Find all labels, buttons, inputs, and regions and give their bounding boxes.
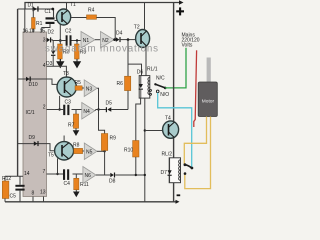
diode D7 [161,158,172,183]
wire T2 collector [144,3,146,30]
svg-text:15: 15 [40,28,46,34]
relay RL/2 [162,152,181,183]
wire T5 emitter [57,159,59,175]
svg-text:14: 14 [24,171,30,177]
svg-text:T2: T2 [134,25,140,31]
svg-text:R10: R10 [124,148,133,154]
wire RL/2 bottom stub [173,183,175,202]
wire D1 rail [18,9,54,17]
transistor Q3 T3 [57,71,76,97]
svg-text:D7: D7 [161,170,168,176]
svg-text:D4: D4 [116,31,123,37]
svg-text:C3: C3 [65,100,72,106]
wire R6 bottom to D5 row [127,91,129,110]
resistor R6 [117,76,131,90]
resistor R2 [58,41,70,62]
svg-text:D8: D8 [109,179,116,185]
wire pin2 C3 row [47,109,82,111]
svg-text:T1: T1 [70,2,76,8]
svg-text:R4: R4 [88,8,95,14]
svg-text:D2: D2 [48,30,55,36]
svg-text:R8: R8 [73,143,80,149]
transistor Q2 T2 [134,25,150,48]
wire left rail [17,9,19,176]
svg-text:T4: T4 [165,116,171,122]
relay RL/1 [139,67,158,99]
wire T1 collector [66,3,68,10]
relay RL/2 contacts [184,163,194,175]
wire T5 collector stub [63,136,65,142]
svg-text:C2: C2 [65,28,72,34]
wire pin8 stub [32,197,34,202]
wire N5 output [97,150,105,152]
svg-text:swagatam innovations: swagatam innovations [45,44,159,55]
wire T1 emitter [59,25,61,41]
svg-text:RL/1: RL/1 [147,67,158,73]
resistor R5 [75,80,85,90]
buffer N1 [81,32,95,49]
wire N4 output [95,110,106,111]
wire yellow motor A [184,117,206,165]
svg-text:N/O: N/O [160,92,169,98]
wire green mains [165,48,186,88]
svg-text:R7: R7 [68,123,75,129]
diode D9 [29,135,39,146]
resistor R10 [124,98,141,176]
resistor R9 [101,134,116,176]
wire red mains [194,50,197,127]
svg-text:RL/2: RL/2 [162,152,173,158]
relay RL/1 contacts [154,76,169,99]
relay RL/2 coil [179,160,181,180]
wire cyan N/O to RL2 pole [158,93,192,168]
resistor R7 [68,110,79,131]
svg-text:T3: T3 [63,71,69,77]
node minus terminal [177,194,181,196]
diode D10 [26,77,38,89]
svg-text:13: 13 [40,190,46,196]
ground below R2 [57,59,64,67]
diode D2 [47,30,55,43]
svg-text:2: 2 [43,105,46,111]
transistor Q4 T4 [163,116,179,139]
diode D1 [28,3,39,12]
svg-text:D5: D5 [106,101,113,107]
svg-text:T5: T5 [48,153,54,159]
svg-text:D1: D1 [28,3,35,9]
svg-text:D9: D9 [29,135,36,141]
wire yellow motor B [185,117,211,189]
transistor Q5 T5 [48,142,74,160]
wire relay1 bottom to T4 base to D8 row [144,98,146,202]
wire T4 base [145,130,163,132]
buffer N6 [83,167,96,184]
svg-text:R5: R5 [75,80,82,86]
capacitor C3 [63,100,71,116]
svg-text:N3: N3 [86,86,93,92]
svg-text:R12: R12 [2,176,11,182]
svg-text:Volts: Volts [182,43,193,49]
wire D9 row to T5 base [18,144,55,151]
wire N3 output down to R9 [97,88,104,133]
buffer N5 [84,143,97,160]
pin labels IC [23,28,46,196]
svg-text:R6: R6 [117,81,124,87]
svg-text:R9: R9 [110,136,117,142]
wire N6 output D8 row [96,174,145,176]
wire C2 row [52,40,81,42]
resistor R12 [2,176,11,202]
wire bottom rail [5,201,176,203]
svg-text:N/C: N/C [156,76,165,82]
buffer N4 [82,103,95,120]
node A junction T2 base branch [127,38,130,41]
resistor R4 [87,8,97,20]
diode D3 [46,41,55,68]
motor M1 [198,58,217,117]
label mains [182,33,200,49]
resistor R11 [74,174,89,192]
relay RL/1 coil [148,78,150,95]
wire right rail [173,3,175,202]
svg-text:C5: C5 [10,194,17,200]
resistor R3 [75,41,87,62]
wire pin7 C4 row [47,173,83,175]
capacitor C1 [42,9,55,32]
svg-text:10: 10 [29,28,35,34]
ground below R11 [73,192,80,198]
buffer N3 [84,80,97,97]
capacitor C2 [65,28,72,45]
svg-text:C1: C1 [45,9,52,15]
svg-text:N6: N6 [85,173,92,179]
wire T3 emitter [59,96,61,110]
diode D5 [106,101,129,113]
wire pin13 stub [43,197,45,202]
wire T2 emitter to relay coil [145,47,147,76]
svg-text:N4: N4 [83,109,90,115]
wire T1 to R4 [71,17,87,19]
wire pin14 row [5,175,23,177]
svg-text:D10: D10 [29,82,38,88]
svg-text:IC/1: IC/1 [26,110,35,116]
wire R4 to N2 output [97,18,116,40]
diode D8 [109,173,116,185]
wire N1 to N2 [95,39,101,41]
node N2 output junction [113,38,116,41]
diode D6 [137,70,144,99]
svg-text:D6: D6 [137,70,144,76]
svg-text:8: 8 [32,191,35,197]
wire base branch to R6 and D6 [128,40,142,77]
svg-text:4: 4 [43,63,46,69]
svg-text:R1: R1 [36,21,43,27]
wire pin4 to T3 collector [47,66,67,77]
wire D10 row to T3 base [18,79,57,84]
ground below R3 [74,59,81,67]
resistor R1 [32,9,43,32]
buffer N2 [101,32,115,49]
IC U1 body [23,32,47,197]
transistor Q1 T1 [57,2,77,25]
wire top rail [25,3,180,10]
diode D4 [116,31,136,43]
wire pin16 stub [24,9,26,32]
svg-text:N5: N5 [86,149,93,155]
svg-text:16: 16 [23,28,29,34]
svg-text:7: 7 [43,169,46,175]
ground below R7 [73,130,80,136]
capacitor C4 [63,169,70,187]
resistor R8 [73,143,84,154]
svg-text:Motor: Motor [202,98,215,104]
capacitor C5 [10,176,25,202]
wire T1 base stub [55,20,57,22]
node plus terminal [176,10,184,12]
svg-text:C4: C4 [64,181,71,187]
